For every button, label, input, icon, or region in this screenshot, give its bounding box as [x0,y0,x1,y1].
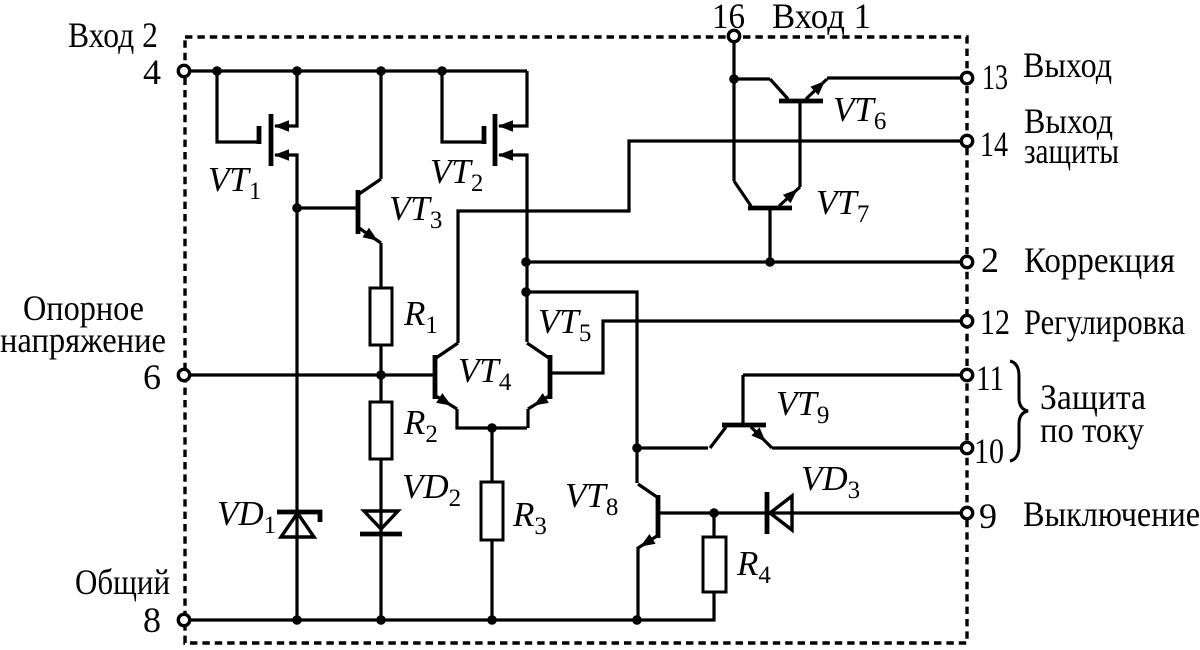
wire: VT2 drain lead from rail [499,71,527,126]
svg-text:4: 4 [143,52,161,92]
wire: VT8 emitter to ground rail [636,547,639,620]
transistor VT5 emitter with arrow [528,393,549,409]
transistor VT1 drain arrow [274,120,289,132]
transistor VT6 base bar [779,99,823,104]
wire: VT3 collector to rail [379,71,382,179]
label R1 [403,294,438,339]
wire: VT1 gate lead from rail [217,71,259,142]
label R3 [512,495,547,540]
pin 10 terminal circle [961,442,972,453]
junction: VT4-VT5 emitters / R3 [487,423,497,433]
resistor R4 [703,537,726,592]
diode VD3 triangle [770,496,792,530]
pin 12 number [980,302,1010,342]
pin 2 number [981,240,999,280]
junction: rail / VT1 gate [212,66,222,76]
transistor VT2 channel bar [493,114,498,166]
junction: VT2 source / correction line [521,257,531,267]
pin 12 terminal circle [961,315,972,326]
pin 14 terminal circle [961,135,972,146]
svg-text:16: 16 [712,0,745,36]
transistor VT5 base bar [548,355,553,399]
transistor VT4 base bar [433,355,438,399]
wire: VT3 emitter to R1 [379,243,382,288]
wire: pin 6 reference line to VT4 base [184,373,433,376]
transistor VT3 base bar [356,190,361,234]
label VT5 [538,302,591,347]
label VT9 [776,384,829,429]
wire: VT4 collector up and over to pin 14 (protection output) [458,141,967,343]
diode VD2 cathode bar [360,532,402,537]
brace for pins 11 and 10 (Защита по току) [1010,361,1028,461]
label VD3 [801,459,860,504]
label VT1 [208,160,261,205]
svg-text:6: 6 [143,357,161,397]
wire: ground rail from pin 8 to R4 [184,592,714,620]
wire: VT5 base to pin 12 (regulation) [551,321,967,373]
svg-text:защиты: защиты [1024,131,1119,171]
label VT4 [458,351,512,396]
wire: VT1 source to VT3 base [297,206,356,209]
pin 8 number [143,600,161,640]
wire: VT6 collector branch [734,77,770,80]
wire: branch to VT8/VT9 collectors [527,292,637,483]
diode VD3 cathode bar [765,492,770,534]
pin 13 terminal circle [961,72,972,83]
label VT3 [389,189,442,234]
transistor VT6 emitter with arrow [806,79,827,99]
svg-text:Вход 1: Вход 1 [772,0,871,36]
pin 9 terminal circle [961,507,972,518]
pin 16 terminal circle [728,30,739,41]
transistor VT5 collector [527,343,549,358]
transistor VT1 (FET) gate electrode [257,126,262,144]
junction: rail / VT1 drain [292,66,302,76]
label VD1 [217,494,276,539]
wire: top supply rail from pin 4 to VT2 drain [184,69,527,72]
resistor R1 [370,288,392,345]
svg-text:по току: по току [1040,410,1144,450]
transistor VT2 (FET) gate electrode [482,126,487,144]
svg-text:9: 9 [979,496,997,536]
node label Опорное напряжение line 1 [23,288,144,328]
svg-text:Выключение: Выключение [1023,494,1200,534]
wire: VT2 source line down to VT5 collector [499,155,527,342]
wire: VT9 collector to VT8 branch [637,446,708,449]
svg-text:10: 10 [974,431,1004,471]
label VT2 [430,152,483,197]
wire: R2 to VD2 to ground rail [379,459,382,620]
diode VD1 triangle [281,513,314,537]
pin 9 number [979,496,997,536]
transistor VT8 emitter with arrow [638,534,657,548]
junction: ground rail / VD2 [376,615,386,625]
transistor VT1 channel bar [269,114,274,166]
svg-text:13: 13 [982,57,1008,97]
svg-text:2: 2 [981,240,999,280]
wire: VT8 base to VD3 and pin 9 (shutdown) [660,511,967,514]
svg-text:14: 14 [980,124,1008,164]
wire: VT1 source line down to VD1 and ground rail [275,155,297,620]
wire: VT9 emitter to pin 10 [772,446,967,449]
pin 13 number [982,57,1008,97]
wire: VT4 emitter to common node [457,409,527,428]
junction: ground rail / R3 [487,615,497,625]
wire: VT2 gate lead from rail [442,71,484,142]
wire: R1 to R2 through node at reference line [379,345,382,402]
wire: R3 to ground rail [490,540,493,620]
pin 6 number [143,357,161,397]
pin 10 number [974,431,1004,471]
wire: VT6 emitter to pin 13 (output) [827,76,967,79]
label VT6 [833,90,886,135]
transistor VT7 emitter with arrow [779,187,800,206]
transistor VT3 emitter with arrow [359,228,381,243]
svg-text:Вход 2: Вход 2 [68,15,158,55]
transistor VT8 base bar [656,495,661,538]
transistor VT9 base bar [722,423,766,428]
node label Выход [1023,45,1112,85]
junction: R1-R2 / reference line [376,370,386,380]
wire: pin 16 drop to VT7 collector [732,36,735,181]
transistor VT9 emitter with arrow [751,427,772,448]
pin 14 number [980,124,1008,164]
node label Регулировка [1024,302,1185,342]
junction: ground rail / VD1 [292,615,302,625]
IC boundary dashed frame [185,37,967,643]
node label Выход защиты line 1 [1024,101,1113,141]
node label Вход 2 [68,15,158,55]
transistor VT2 source arrow [498,149,513,161]
resistor R3 [481,482,503,540]
wire: VT1 drain lead from rail [275,71,297,126]
pin 6 terminal circle [178,369,189,380]
pin 4 number [143,52,161,92]
svg-text:11: 11 [976,358,1004,398]
node label Выключение [1023,494,1200,534]
node label Защита по току line 2 [1040,410,1144,450]
junction: VT9 collector branch [632,443,642,453]
wire: VT7 base down to correction line [768,210,771,262]
wire: VT6 base to VT7 emitter [798,103,801,187]
svg-text:Выход: Выход [1023,45,1112,85]
label R2 [403,403,438,448]
svg-text:Общий: Общий [75,562,170,602]
node label Защита по току line 1 [1040,377,1146,417]
transistor VT4 collector [436,343,458,358]
label VT8 [565,476,618,521]
pin 16 number [712,0,745,36]
pin 2 terminal circle [961,256,972,267]
junction: VT1 source / VT3 base [292,203,302,213]
wire: correction line from VT2 source to pin 2 [527,260,967,263]
pin 11 number [976,358,1004,398]
transistor VT4 emitter with arrow [436,393,457,409]
svg-text:Регулировка: Регулировка [1024,302,1185,342]
junction: VT2 source / protection branch [521,287,531,297]
wire: R4 top lead [712,513,715,537]
junction: VT8 base / R4 top [709,508,719,518]
svg-text:12: 12 [980,302,1010,342]
pin 11 terminal circle [961,369,972,380]
junction: pin 16 line / VT6 collector [729,74,739,84]
wire: VT5 emitter to common node [526,409,529,428]
pin 8 terminal circle [178,614,189,625]
transistor VT6 collector [770,79,788,99]
svg-text:напряжение: напряжение [0,320,166,360]
transistor VT2 drain arrow [498,120,513,132]
transistor VT1 source arrow [274,149,289,161]
node label Выход защиты line 2 [1024,131,1119,171]
transistor VT3 collector [359,179,381,194]
node label Общий [75,562,170,602]
svg-text:8: 8 [143,600,161,640]
transistor VT9 collector [710,427,726,448]
label VD2 [402,467,461,512]
node label Коррекция [1024,240,1175,280]
node label Опорное напряжение line 2 [0,320,166,360]
transistor VT8 collector [638,484,657,497]
junction: ground rail / VT8 emitter [632,615,642,625]
resistor R2 [370,402,392,459]
junction: rail / VT2 gate [437,66,447,76]
wire: VT9 base to pin 11 line [743,375,967,423]
pin 4 terminal circle [178,65,189,76]
junction: rail / VT3 collector [376,66,386,76]
diode VD1 zener cathode bar with tick [277,512,320,522]
label R4 [736,544,771,589]
wire: emitter node down to R3 [490,428,493,482]
transistor VT7 collector [734,181,751,206]
svg-text:Коррекция: Коррекция [1024,240,1175,280]
transistor VT7 base bar [748,206,792,211]
diode VD2 triangle [364,511,398,529]
junction: VT7 base / correction line [765,257,775,267]
node label Вход 1 [772,0,871,36]
label VT7 [816,183,869,228]
